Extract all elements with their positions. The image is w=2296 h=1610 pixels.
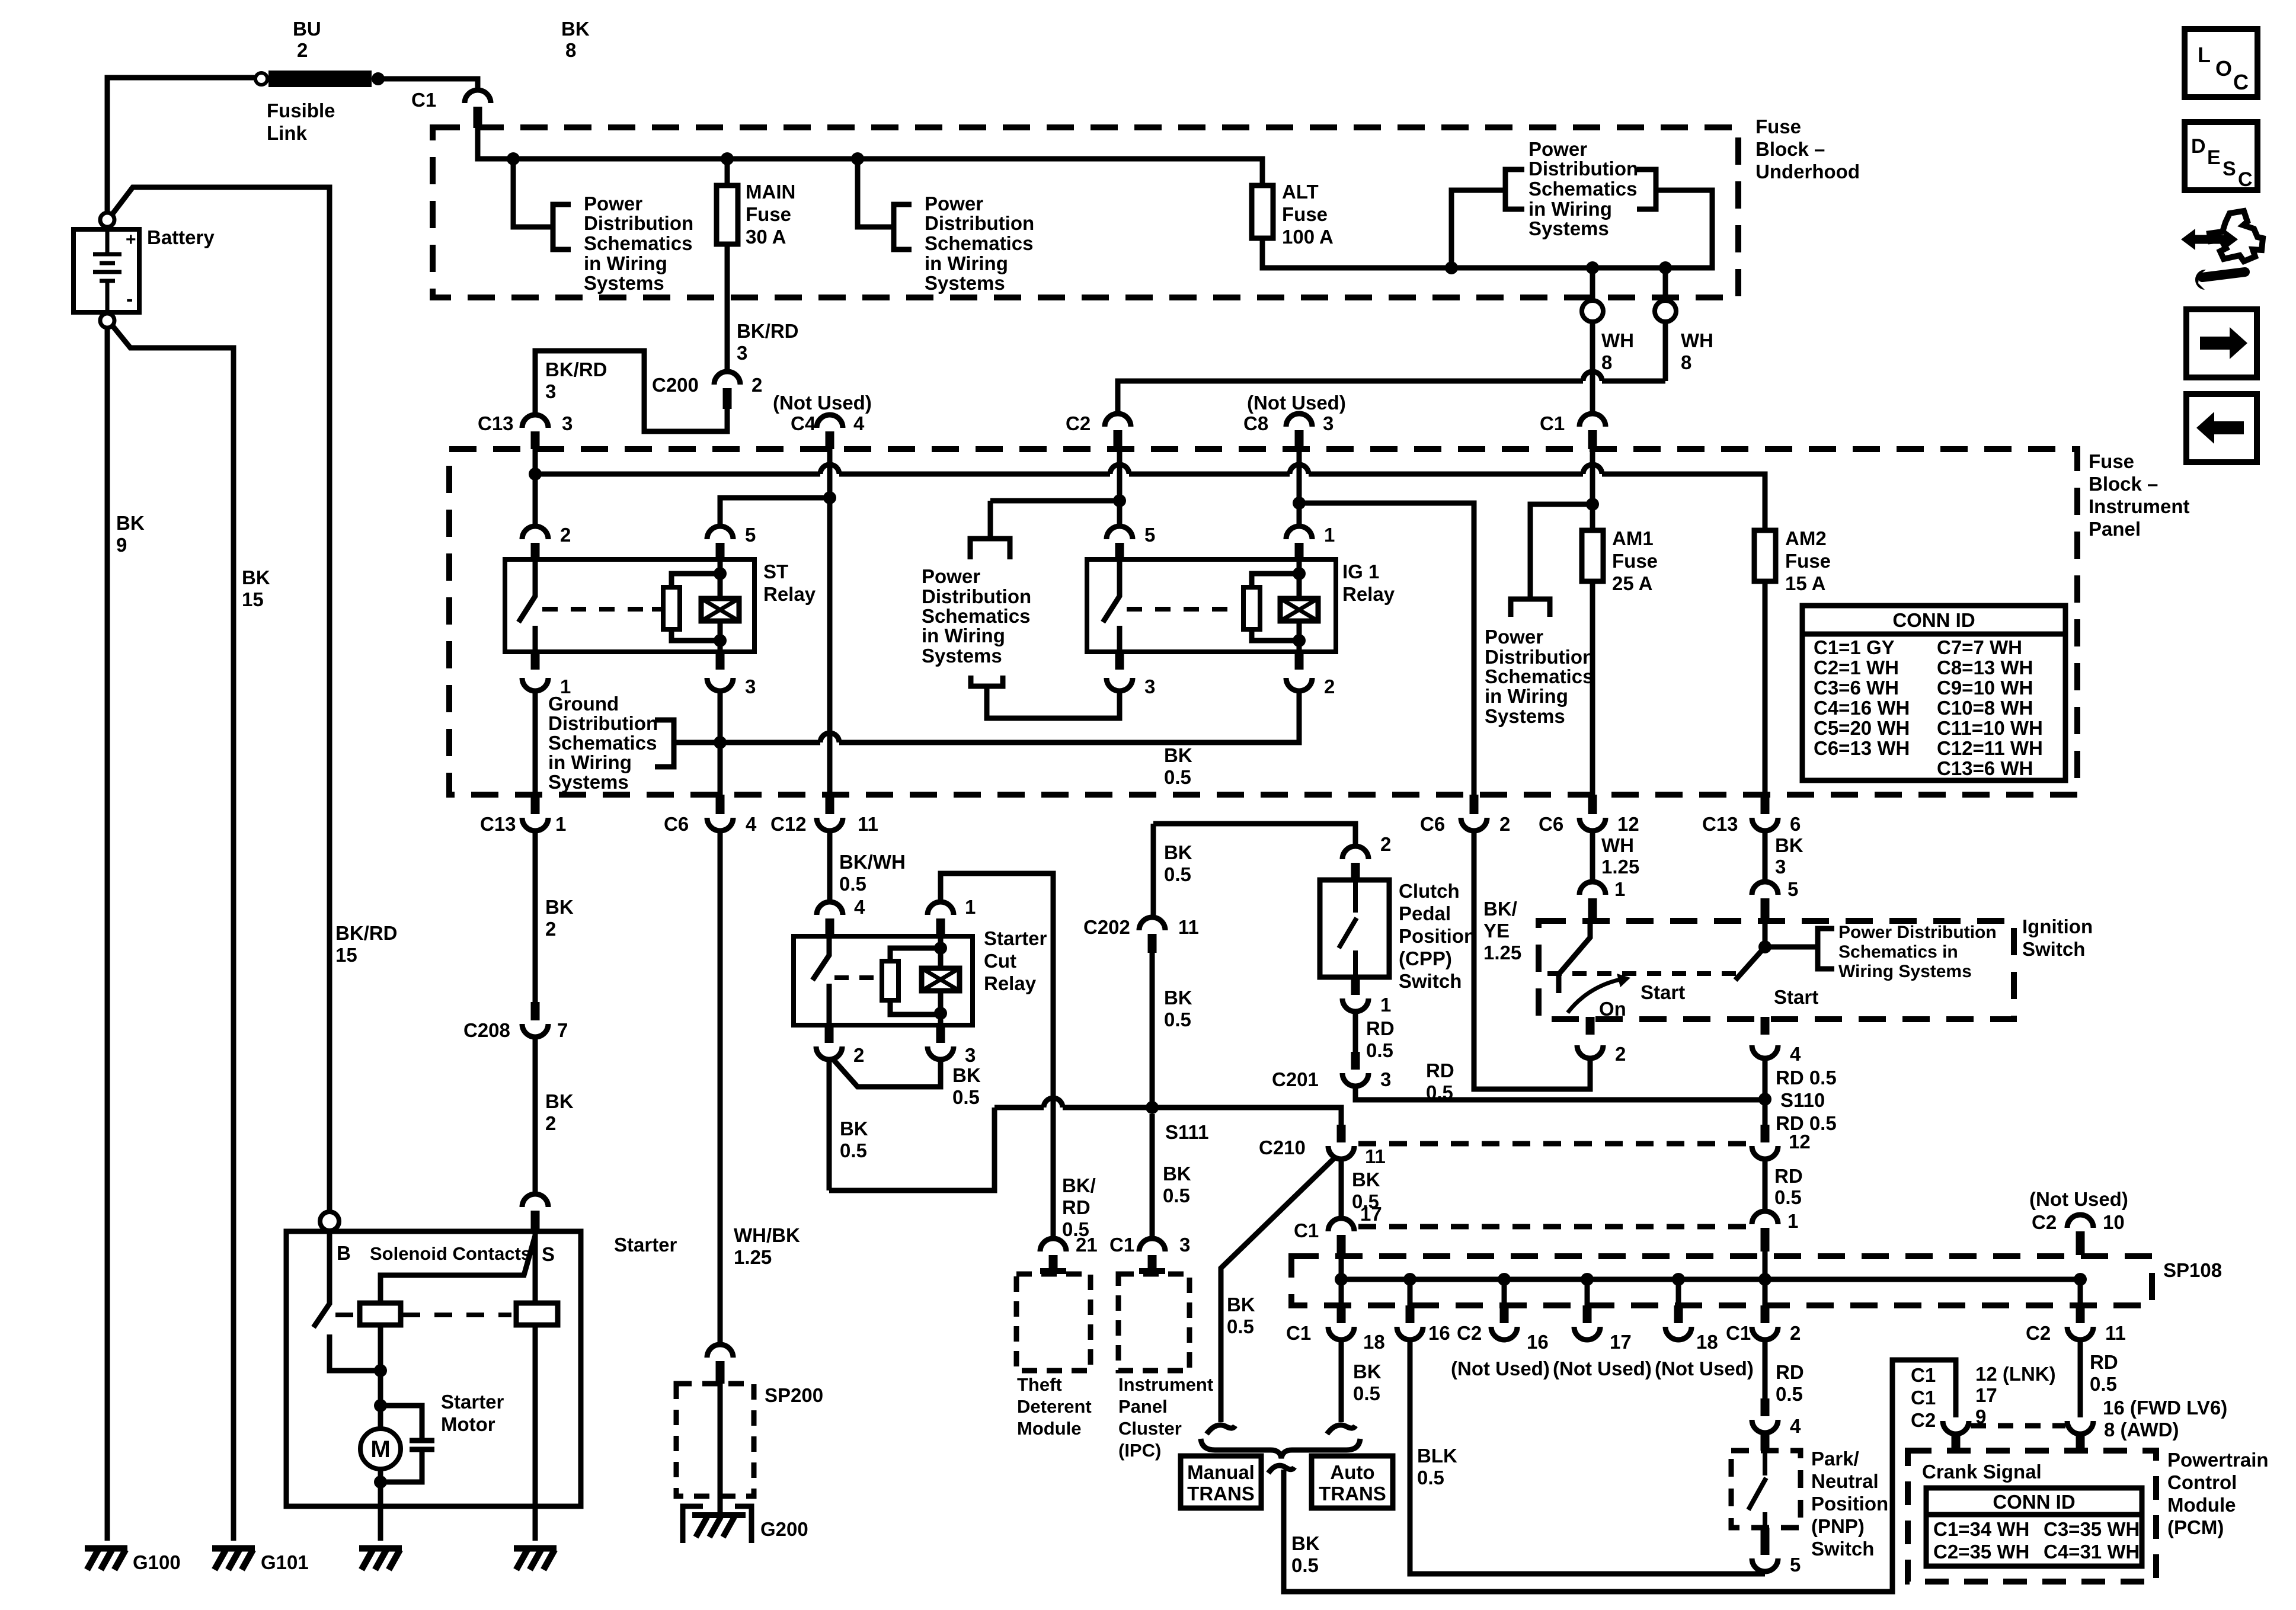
svg-text:0.5: 0.5	[1417, 1467, 1444, 1489]
svg-text:Block –: Block –	[2089, 473, 2158, 495]
ignition switch pin 4	[1761, 1017, 1770, 1035]
svg-text:15: 15	[335, 944, 357, 966]
wire hook below brace	[1268, 1465, 1294, 1473]
SP108 drop C1-18	[1339, 1279, 1344, 1305]
connector C13 pin 6	[1761, 795, 1770, 814]
svg-text:BK: BK	[561, 18, 590, 40]
fusible link FL (BU 2 wire)	[255, 71, 385, 87]
svg-text:2: 2	[1615, 1043, 1626, 1065]
ground starter motor	[359, 1548, 402, 1570]
node WH8 right	[1659, 261, 1672, 274]
connector C208 pin 7	[531, 1002, 540, 1020]
svg-text:Systems: Systems	[1485, 705, 1565, 727]
wire BK 0.5 to S111	[1150, 953, 1155, 1108]
svg-text:Position: Position	[1811, 1493, 1888, 1515]
starter cut relay pin 4	[817, 902, 843, 915]
svg-text:+: +	[126, 230, 136, 249]
svg-text:C1: C1	[1726, 1322, 1751, 1344]
svg-text:0.5: 0.5	[1164, 766, 1191, 788]
ignition switch left pole (On)	[1559, 921, 1590, 993]
svg-text:(Not Used): (Not Used)	[1655, 1358, 1754, 1379]
svg-text:C210: C210	[1259, 1137, 1306, 1158]
svg-text:Fuse: Fuse	[1785, 550, 1831, 572]
svg-text:S111: S111	[1165, 1121, 1208, 1143]
battery negative wire BK 9 to G100	[105, 328, 110, 1541]
svg-text:BK/WH: BK/WH	[839, 851, 906, 873]
svg-text:0.5: 0.5	[1164, 863, 1191, 885]
starter box	[286, 1231, 581, 1506]
svg-text:BK: BK	[545, 1090, 574, 1112]
starter solenoid S internal wire	[380, 1231, 535, 1303]
svg-text:Relay: Relay	[763, 583, 816, 605]
svg-text:C8=13 WH: C8=13 WH	[1937, 657, 2033, 678]
svg-text:C1=34 WH: C1=34 WH	[1933, 1518, 2029, 1540]
svg-text:1: 1	[1380, 994, 1391, 1016]
svg-text:7: 7	[557, 1019, 568, 1041]
svg-text:15 A: 15 A	[1785, 572, 1825, 594]
svg-text:1: 1	[555, 813, 566, 835]
svg-text:8: 8	[1681, 351, 1691, 373]
IG1 relay pin 3	[1115, 652, 1124, 670]
connector C12 pin 11	[826, 795, 834, 814]
svg-text:BK: BK	[952, 1064, 981, 1086]
svg-text:CONN ID: CONN ID	[1892, 609, 1975, 631]
ST relay pin 1	[531, 652, 540, 670]
brace manual/auto trans select	[1201, 1439, 1360, 1458]
svg-text:Schematics: Schematics	[1528, 178, 1637, 200]
svg-text:(Not Used): (Not Used)	[1451, 1358, 1550, 1379]
wire end hook (auto trans side)	[1327, 1425, 1355, 1434]
svg-text:BK: BK	[1775, 834, 1803, 856]
wire into SP108 splice	[1339, 1256, 1344, 1279]
SP108 drop C2-16 (Not Used)	[1498, 1273, 1511, 1286]
wire RD 0.5 to S110	[1763, 1058, 1768, 1125]
wire to PDS5 bracket	[1765, 929, 1834, 969]
wire jumper pin2-pin3 BK 0.5	[833, 1060, 941, 1087]
wire C13-3 to ST relay pin 2	[533, 449, 538, 526]
svg-text:C8: C8	[1243, 412, 1268, 434]
wire C210-11 branch to manual trans	[1221, 1157, 1336, 1422]
svg-text:(Not Used): (Not Used)	[1553, 1358, 1652, 1379]
svg-text:YE: YE	[1483, 920, 1510, 942]
svg-text:C12: C12	[770, 813, 807, 835]
svg-text:C2: C2	[1066, 412, 1091, 434]
svg-text:Powertrain: Powertrain	[2167, 1449, 2269, 1471]
ST relay link (dashed)	[542, 607, 652, 612]
svg-text:SP200: SP200	[765, 1384, 823, 1406]
svg-text:8 (AWD): 8 (AWD)	[2104, 1419, 2179, 1441]
svg-text:Distribution: Distribution	[1528, 158, 1638, 180]
connector C1 pin 1	[1752, 1211, 1778, 1224]
svg-text:AM1: AM1	[1612, 527, 1654, 549]
svg-text:2: 2	[853, 1044, 864, 1066]
svg-text:Ground: Ground	[548, 693, 619, 715]
svg-text:BK/: BK/	[1483, 898, 1517, 920]
wire WH 8 right to C2 with hop	[1602, 379, 1665, 384]
ground G200	[683, 1506, 752, 1543]
wire BK 3 to ignition connector 5	[1763, 831, 1768, 882]
svg-text:1: 1	[1324, 524, 1335, 546]
svg-text:On: On	[1599, 998, 1626, 1020]
connector ignition pin 1	[1579, 882, 1606, 895]
svg-text:L: L	[2198, 43, 2211, 67]
connector C210 pin 12	[1761, 1125, 1770, 1142]
starter solenoid B contact switch	[314, 1231, 380, 1371]
wire into SP108	[1763, 1251, 1768, 1279]
wire PDS bottom bracket to IG1 pin 3	[971, 676, 1120, 718]
svg-text:Systems: Systems	[584, 272, 664, 294]
starter solenoid coil 1	[360, 1303, 401, 1325]
svg-text:4: 4	[853, 412, 865, 434]
svg-text:C4=31 WH: C4=31 WH	[2044, 1541, 2140, 1563]
svg-text:Deterent: Deterent	[1017, 1396, 1092, 1417]
wire RD 0.5 to S110	[1355, 1086, 1765, 1100]
svg-text:C6: C6	[1539, 813, 1563, 835]
icon vehicle with wrench	[2209, 211, 2263, 261]
svg-text:in Wiring: in Wiring	[548, 751, 632, 773]
wire coil1 to motor node	[378, 1325, 383, 1429]
module Theft Deterent (dashed box)	[1016, 1274, 1091, 1371]
ground starter solenoid	[514, 1548, 557, 1570]
wire bus inside IP fuse block with hops	[535, 472, 820, 477]
svg-text:in Wiring: in Wiring	[1485, 685, 1568, 707]
relay Starter Cut box	[794, 936, 973, 1025]
wire BK/WH 0.5 to starter cut relay	[827, 831, 833, 902]
svg-text:3: 3	[1775, 856, 1786, 878]
svg-text:BK/RD: BK/RD	[737, 320, 799, 342]
svg-text:ALT: ALT	[1282, 181, 1319, 203]
svg-text:RD: RD	[1062, 1196, 1091, 1218]
svg-text:IG 1: IG 1	[1342, 561, 1379, 582]
svg-text:C2: C2	[2032, 1211, 2057, 1233]
connector C6 pin 2	[1470, 795, 1479, 814]
svg-text:(Not Used): (Not Used)	[1247, 392, 1346, 414]
svg-text:Switch: Switch	[2022, 938, 2085, 960]
svg-text:0.5: 0.5	[1353, 1382, 1380, 1404]
svg-text:G101: G101	[261, 1551, 309, 1573]
svg-text:C12=11 WH: C12=11 WH	[1937, 737, 2043, 759]
svg-text:25 A: 25 A	[1612, 572, 1652, 594]
connector PNP pin 4	[1761, 1398, 1770, 1416]
connector starter S terminal	[522, 1194, 548, 1207]
node feedC-IG1pin1	[1293, 497, 1306, 510]
wire BK/YE 1.25 to ignition switch pin 2	[1474, 831, 1590, 1089]
svg-text:BK: BK	[1163, 1163, 1191, 1185]
wire BK 2 to starter S	[533, 1037, 538, 1194]
ST relay coil	[701, 598, 739, 621]
wire BK 2 to C208	[533, 831, 538, 1002]
svg-text:CONN ID: CONN ID	[1993, 1491, 2075, 1513]
svg-text:BK/RD: BK/RD	[335, 922, 398, 944]
svg-text:BK/RD: BK/RD	[545, 359, 607, 380]
svg-text:C13=6 WH: C13=6 WH	[1937, 757, 2033, 779]
svg-text:Systems: Systems	[922, 645, 1002, 667]
wire RD 0.5 to C201	[1353, 1012, 1358, 1052]
IG1 relay pin 5	[1107, 526, 1133, 539]
svg-text:9: 9	[116, 534, 127, 556]
svg-text:C208: C208	[463, 1019, 510, 1041]
wire BK 0.5 brace to PCM crank signal	[1284, 1360, 1956, 1592]
connector C13 pin 1	[531, 795, 540, 814]
wire ST pin 3 to C6-4	[718, 691, 723, 795]
svg-text:2: 2	[560, 524, 571, 546]
svg-text:-: -	[126, 288, 133, 311]
svg-text:5: 5	[1787, 878, 1798, 900]
wire starter cut pin 1 feed from theft deterrent	[941, 873, 1053, 1238]
svg-text:2: 2	[545, 918, 556, 940]
svg-text:C202: C202	[1083, 916, 1130, 938]
svg-text:Neutral: Neutral	[1811, 1470, 1879, 1492]
svg-text:Power: Power	[1528, 138, 1587, 160]
svg-text:Schematics: Schematics	[925, 232, 1033, 254]
svg-text:0.5: 0.5	[1163, 1185, 1190, 1206]
svg-text:C2: C2	[2026, 1322, 2051, 1344]
box Auto TRANS	[1312, 1456, 1393, 1508]
wire WH 1.25 to ignition connector 1	[1590, 831, 1595, 882]
svg-text:0.5: 0.5	[1774, 1186, 1802, 1208]
svg-text:BK: BK	[1353, 1361, 1382, 1382]
svg-text:RD: RD	[2090, 1351, 2118, 1373]
svg-text:RD: RD	[1776, 1361, 1804, 1383]
wire C8-3 / IG1 pin 1 feed	[1297, 449, 1302, 526]
svg-text:BK: BK	[545, 896, 574, 918]
wire feed C4 to ST relay pin 5	[720, 498, 830, 526]
svg-text:16: 16	[1428, 1322, 1450, 1344]
svg-text:3: 3	[1323, 412, 1334, 434]
wire S111 left with hop	[994, 1105, 1044, 1110]
svg-text:(IPC): (IPC)	[1118, 1440, 1161, 1461]
IG1 relay pin 2	[1295, 652, 1304, 670]
svg-text:C13: C13	[1702, 813, 1738, 835]
svg-text:C1: C1	[1286, 1322, 1311, 1344]
connector CPP pin 2	[1342, 846, 1368, 859]
relay ST box	[505, 559, 754, 652]
SP108 drop 18 (Not Used)	[1672, 1273, 1685, 1286]
svg-text:Switch: Switch	[1399, 970, 1462, 992]
svg-text:1: 1	[1614, 878, 1625, 900]
svg-text:Module: Module	[1017, 1418, 1082, 1439]
svg-text:16: 16	[1527, 1331, 1549, 1353]
svg-text:(PCM): (PCM)	[2167, 1516, 2224, 1538]
svg-text:WH/BK: WH/BK	[734, 1224, 800, 1246]
svg-text:C11=10 WH: C11=10 WH	[1937, 717, 2043, 739]
svg-text:2: 2	[1499, 813, 1510, 835]
svg-text:Power Distribution: Power Distribution	[1838, 923, 1997, 942]
svg-text:AM2: AM2	[1785, 527, 1827, 549]
svg-text:Position: Position	[1399, 925, 1476, 947]
wire S111 right to C210-11	[1152, 1108, 1341, 1125]
SP108 drop 17 (Not Used)	[1581, 1273, 1594, 1286]
svg-text:C6: C6	[1420, 813, 1445, 835]
svg-text:Systems: Systems	[548, 771, 629, 793]
svg-text:3: 3	[965, 1044, 976, 1066]
svg-text:S: S	[2223, 158, 2236, 180]
svg-text:C1: C1	[411, 89, 436, 111]
wire AM2 to C13-6	[1763, 581, 1768, 795]
wire S111 step to starter cut pin 2	[829, 1108, 994, 1190]
svg-text:BK: BK	[242, 566, 270, 588]
svg-text:Underhood: Underhood	[1755, 161, 1860, 183]
SP108 drop 16	[1403, 1273, 1416, 1286]
node bus-PDS1	[507, 152, 520, 165]
fuse block instrument panel (dashed box)	[449, 449, 2077, 795]
starter cut relay link (dashed)	[834, 975, 876, 980]
ST relay pin 5	[707, 526, 733, 539]
svg-text:Relay: Relay	[984, 972, 1037, 994]
svg-text:C3=6 WH: C3=6 WH	[1814, 677, 1899, 699]
svg-text:8: 8	[565, 39, 576, 61]
svg-text:C2=35 WH: C2=35 WH	[1933, 1541, 2029, 1563]
svg-text:TRANS: TRANS	[1319, 1483, 1386, 1505]
wire feed to C6-2 drop	[1299, 503, 1474, 795]
svg-text:C201: C201	[1272, 1068, 1319, 1090]
svg-text:C13: C13	[478, 412, 514, 434]
svg-text:in Wiring: in Wiring	[925, 252, 1008, 274]
connector C201 pin 3	[1351, 1052, 1360, 1070]
svg-text:Power: Power	[922, 565, 980, 587]
svg-text:(CPP): (CPP)	[1399, 948, 1452, 969]
connector line PCM (dotted)	[1971, 1423, 2065, 1429]
svg-text:3: 3	[745, 676, 756, 697]
svg-text:Fuse: Fuse	[1282, 203, 1328, 225]
wire PDS top bracket feed	[970, 501, 1120, 559]
svg-text:TRANS: TRANS	[1187, 1483, 1255, 1505]
svg-text:(Not Used): (Not Used)	[773, 392, 872, 414]
svg-text:3: 3	[1179, 1234, 1190, 1256]
battery BAT	[73, 229, 139, 312]
svg-text:Panel: Panel	[1118, 1396, 1168, 1417]
svg-text:Control: Control	[2167, 1471, 2237, 1493]
svg-text:Starter: Starter	[441, 1391, 504, 1413]
node feedA-C4	[823, 491, 836, 504]
ST relay contact switch	[519, 559, 535, 652]
svg-text:Distribution: Distribution	[925, 212, 1034, 234]
svg-text:Battery: Battery	[147, 226, 215, 248]
node bus-ST	[529, 468, 542, 481]
svg-text:C1=1 GY: C1=1 GY	[1814, 636, 1895, 658]
svg-text:Schematics: Schematics	[584, 232, 692, 254]
wire WH/BK 1.25 to SP200	[718, 831, 723, 1345]
svg-text:0.5: 0.5	[1291, 1554, 1319, 1576]
svg-text:C2=1 WH: C2=1 WH	[1814, 657, 1899, 678]
switch PNP (Park/Neutral Position, dashed box)	[1731, 1451, 1801, 1528]
svg-text:Power: Power	[925, 193, 983, 215]
svg-text:Schematics in: Schematics in	[1838, 942, 1958, 962]
IG1 relay contact switch	[1103, 559, 1120, 652]
starter capacitor	[380, 1406, 422, 1482]
wire C4-4 vertical feed	[827, 449, 833, 795]
wire PDS4 bracket	[1511, 504, 1593, 617]
svg-text:11: 11	[1178, 916, 1199, 938]
svg-text:O: O	[2215, 56, 2232, 81]
svg-text:Crank Signal: Crank Signal	[1922, 1461, 2042, 1483]
svg-text:Systems: Systems	[925, 272, 1005, 294]
relay IG 1 box	[1087, 559, 1336, 652]
svg-text:18: 18	[1363, 1331, 1385, 1353]
svg-text:Schematics: Schematics	[922, 605, 1030, 627]
svg-text:Starter: Starter	[984, 927, 1047, 949]
svg-text:BU: BU	[293, 18, 321, 40]
starter cut relay resistor	[890, 948, 941, 1014]
svg-text:0.5: 0.5	[840, 1140, 867, 1161]
svg-text:C10=8 WH: C10=8 WH	[1937, 697, 2033, 719]
node bus-PDS2	[851, 152, 864, 165]
starter cut relay pin 1	[928, 902, 954, 915]
svg-text:C9=10 WH: C9=10 WH	[1937, 677, 2033, 699]
IG1 relay pin 1	[1286, 526, 1312, 539]
svg-text:C1: C1	[1911, 1364, 1936, 1386]
svg-text:BK: BK	[1164, 987, 1192, 1009]
icon arrow left box	[2186, 394, 2257, 462]
svg-text:1.25: 1.25	[1483, 942, 1521, 964]
wire BK 0.5 C210-11 to C1-17	[1339, 1159, 1344, 1218]
wire BK/RD 3 jog from C200 to C13-3	[535, 351, 727, 431]
svg-text:BK: BK	[1164, 744, 1192, 766]
svg-text:2: 2	[752, 374, 762, 396]
svg-text:BK: BK	[1227, 1294, 1255, 1315]
svg-text:WH: WH	[1681, 329, 1713, 351]
svg-text:BK: BK	[1352, 1169, 1380, 1190]
wire ST pin 1 to C13-1	[533, 691, 538, 795]
svg-text:12 (LNK): 12 (LNK)	[1975, 1363, 2056, 1385]
svg-text:Auto: Auto	[1330, 1461, 1374, 1483]
svg-text:G100: G100	[133, 1551, 181, 1573]
connector PCM crank signal pin 9	[1943, 1421, 1969, 1434]
connector C210 pin 11	[1337, 1125, 1346, 1142]
connector CPP pin 1	[1351, 977, 1360, 995]
starter cut relay pin 2	[825, 1025, 834, 1043]
svg-text:in Wiring: in Wiring	[922, 625, 1005, 646]
svg-text:1: 1	[1787, 1210, 1798, 1232]
svg-text:1.25: 1.25	[734, 1246, 772, 1268]
svg-text:Cluster: Cluster	[1118, 1418, 1182, 1439]
wire BK 0.5 pin 2 down	[827, 1060, 832, 1190]
svg-text:17: 17	[1975, 1384, 1997, 1406]
svg-text:11: 11	[1365, 1145, 1386, 1167]
wire end hook (manual trans side)	[1207, 1425, 1235, 1434]
svg-text:3: 3	[1380, 1068, 1391, 1090]
svg-text:Distribution: Distribution	[584, 212, 693, 234]
svg-text:0.5: 0.5	[1366, 1039, 1393, 1061]
svg-text:D: D	[2191, 135, 2206, 158]
wire SP108 bus	[1341, 1277, 2080, 1282]
svg-text:Solenoid Contacts: Solenoid Contacts	[370, 1243, 531, 1264]
starter motor M	[360, 1429, 401, 1469]
svg-text:C2: C2	[1457, 1322, 1482, 1344]
starter cut relay coil	[922, 968, 960, 991]
pass-through terminal left (WH 8)	[1590, 268, 1595, 302]
svg-text:12: 12	[1789, 1131, 1811, 1153]
svg-text:4: 4	[854, 896, 865, 918]
connector line C210 (dotted)	[1358, 1141, 1748, 1147]
svg-text:Link: Link	[267, 122, 307, 144]
icon LOC box	[2185, 29, 2257, 97]
icon DESC box	[2185, 122, 2257, 190]
module Instrument Panel Cluster (dashed box)	[1118, 1274, 1189, 1371]
fuse block underhood (dashed box)	[433, 127, 1738, 297]
connector C6 pin 4	[716, 795, 725, 814]
splice S110	[1758, 1093, 1771, 1106]
svg-text:C6: C6	[664, 813, 689, 835]
svg-text:Cut: Cut	[984, 950, 1016, 972]
connector C6 pin 12	[1588, 795, 1597, 814]
connector C202 pin 11	[1139, 917, 1165, 930]
svg-text:BLK: BLK	[1417, 1445, 1457, 1467]
svg-text:Systems: Systems	[1528, 217, 1609, 239]
wire BK 0.5 S111 to IPC C1-3	[1150, 1114, 1155, 1238]
svg-text:Distribution: Distribution	[1485, 646, 1594, 668]
svg-text:Instrument: Instrument	[1118, 1374, 1213, 1395]
